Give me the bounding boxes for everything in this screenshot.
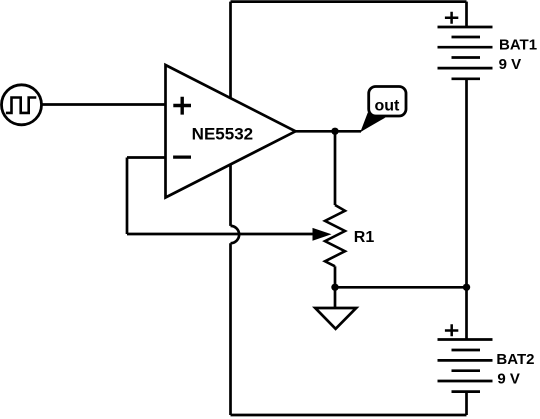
svg-text:BAT2: BAT2 [496, 351, 534, 368]
svg-text:BAT1: BAT1 [499, 36, 537, 53]
potentiometer R1 [325, 205, 374, 266]
wire source to op-amp + input [42, 103, 166, 106]
wire feedback vertical [126, 158, 129, 235]
svg-text:9 V: 9 V [497, 370, 520, 387]
battery BAT2 9V [438, 324, 535, 391]
wire output to R1 top [334, 131, 337, 205]
wire BAT1 bottom to BAT2 top [465, 79, 468, 340]
wire BAT2 bottom to bottom rail [465, 392, 468, 415]
svg-text:NE5532: NE5532 [192, 124, 253, 143]
svg-text:out: out [374, 97, 400, 114]
wire op-amp output [294, 130, 361, 133]
wire ground node to battery midpoint [335, 286, 467, 289]
wire op-amp - input to feedback [127, 156, 166, 159]
node battery midpoint junction [463, 284, 470, 291]
ground [315, 308, 356, 329]
source V1 square-wave generator [2, 85, 42, 125]
svg-text:9 V: 9 V [499, 56, 522, 73]
wire op-amp V- pin down to bottom rail with hop over feedback wire [231, 164, 240, 415]
wire top rail [231, 0, 467, 3]
wire bottom rail [231, 414, 467, 417]
op-amp U1 NE5532 [166, 65, 296, 198]
wire R1 bottom to ground node [334, 266, 337, 287]
node output junction [331, 128, 338, 135]
wiper arrow of R1 [313, 228, 332, 241]
wire left vertical to op-amp V+ pin [229, 2, 232, 99]
svg-text:R1: R1 [354, 229, 375, 246]
wire top rail to BAT1 [465, 2, 468, 28]
node ground junction [331, 284, 338, 291]
wire ground stub [334, 287, 337, 307]
battery BAT1 9V [438, 12, 538, 79]
wire feedback horizontal to R1 wiper [127, 233, 316, 236]
node out flag [360, 87, 406, 133]
